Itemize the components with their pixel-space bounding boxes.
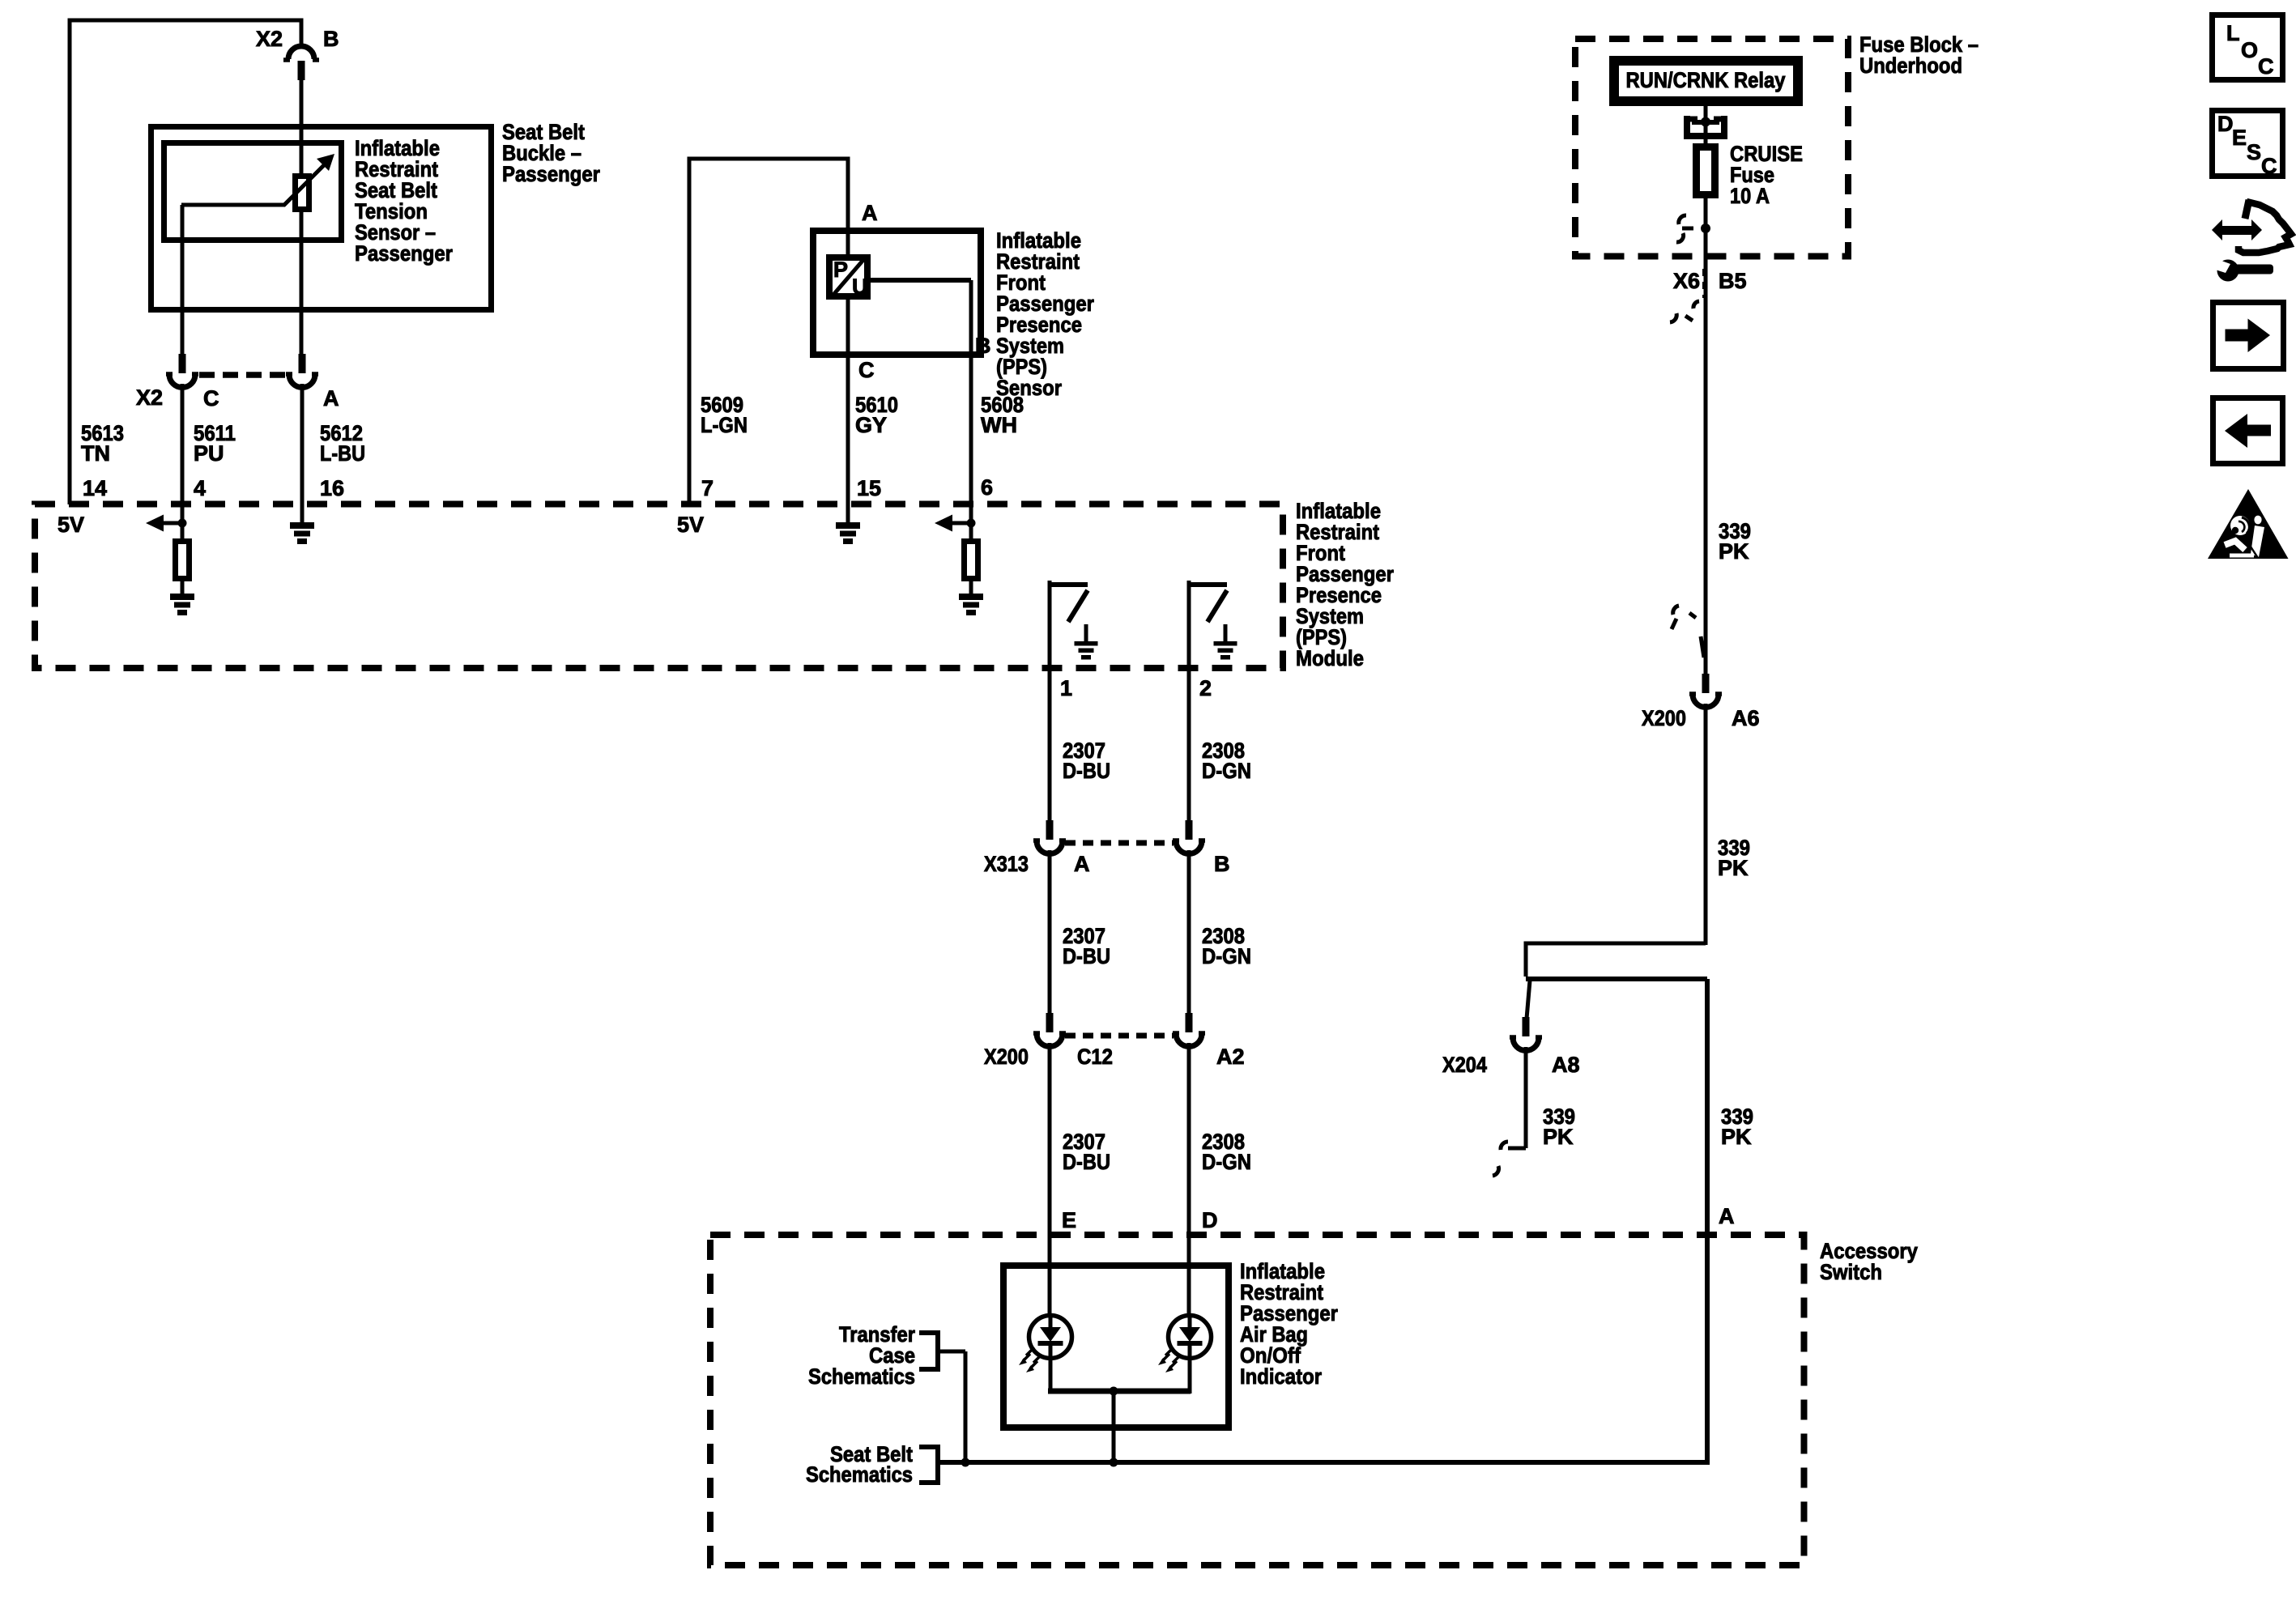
svg-text:15: 15 xyxy=(857,476,881,500)
svg-text:A6: A6 xyxy=(1732,706,1760,730)
svg-text:Underhood: Underhood xyxy=(1859,53,1962,78)
svg-text:X204: X204 xyxy=(1442,1053,1487,1077)
svg-text:D-GN: D-GN xyxy=(1202,944,1251,968)
svg-text:PK: PK xyxy=(1718,856,1749,880)
svg-text:C: C xyxy=(2261,154,2277,178)
svg-text:O: O xyxy=(2241,38,2258,62)
svg-text:D-BU: D-BU xyxy=(1063,1150,1110,1174)
svg-text:D: D xyxy=(2217,112,2234,136)
svg-text:1: 1 xyxy=(1060,676,1072,700)
svg-text:X200: X200 xyxy=(1642,706,1686,730)
svg-text:Schematics: Schematics xyxy=(806,1462,913,1487)
svg-text:5V: 5V xyxy=(677,513,704,537)
svg-text:PU: PU xyxy=(194,441,224,466)
svg-text:2: 2 xyxy=(1199,676,1212,700)
svg-text:GY: GY xyxy=(855,413,887,437)
svg-text:U: U xyxy=(852,274,868,299)
svg-text:B: B xyxy=(975,334,991,358)
svg-text:X200: X200 xyxy=(984,1045,1029,1069)
svg-text:D-BU: D-BU xyxy=(1063,944,1110,968)
svg-text:10 A: 10 A xyxy=(1730,184,1770,208)
svg-text:B: B xyxy=(1214,852,1230,876)
svg-text:E: E xyxy=(1062,1208,1076,1232)
svg-text:C: C xyxy=(2258,54,2274,79)
svg-text:L-GN: L-GN xyxy=(701,413,748,437)
svg-text:Switch: Switch xyxy=(1820,1260,1882,1284)
svg-text:Schematics: Schematics xyxy=(808,1364,915,1389)
svg-text:P: P xyxy=(833,257,848,282)
svg-text:7: 7 xyxy=(701,476,714,500)
svg-text:A: A xyxy=(862,201,878,225)
svg-text:C: C xyxy=(203,386,219,411)
svg-text:X2: X2 xyxy=(136,385,163,410)
svg-text:4: 4 xyxy=(194,476,206,500)
svg-text:X313: X313 xyxy=(984,852,1029,876)
svg-text:5V: 5V xyxy=(58,513,84,537)
svg-text:B: B xyxy=(323,27,339,51)
svg-text:A: A xyxy=(323,386,339,411)
svg-text:X6: X6 xyxy=(1673,269,1700,293)
svg-text:RUN/CRNK Relay: RUN/CRNK Relay xyxy=(1626,68,1786,92)
svg-text:C: C xyxy=(858,358,875,382)
svg-text:D-GN: D-GN xyxy=(1202,759,1251,783)
svg-text:A2: A2 xyxy=(1216,1045,1245,1069)
svg-text:D: D xyxy=(1202,1208,1218,1232)
svg-text:PK: PK xyxy=(1721,1125,1752,1149)
svg-text:A8: A8 xyxy=(1552,1053,1580,1077)
svg-text:C12: C12 xyxy=(1077,1045,1113,1069)
svg-text:E: E xyxy=(2232,126,2247,150)
svg-text:TN: TN xyxy=(81,441,110,466)
svg-text:16: 16 xyxy=(320,476,344,500)
svg-text:D-GN: D-GN xyxy=(1202,1150,1251,1174)
svg-text:Module: Module xyxy=(1296,646,1364,670)
svg-text:A: A xyxy=(1074,852,1090,876)
svg-text:X2: X2 xyxy=(256,27,283,51)
svg-text:PK: PK xyxy=(1719,539,1749,564)
svg-text:S: S xyxy=(2247,140,2261,164)
svg-text:L-BU: L-BU xyxy=(320,441,365,466)
svg-text:Passenger: Passenger xyxy=(355,241,453,266)
svg-text:A: A xyxy=(1719,1204,1735,1228)
svg-text:6: 6 xyxy=(981,475,993,500)
svg-text:L: L xyxy=(2226,21,2240,45)
svg-text:B5: B5 xyxy=(1719,269,1747,293)
svg-text:D-BU: D-BU xyxy=(1063,759,1110,783)
svg-text:WH: WH xyxy=(981,413,1017,437)
svg-text:PK: PK xyxy=(1543,1125,1574,1149)
svg-text:Indicator: Indicator xyxy=(1240,1364,1322,1389)
svg-text:14: 14 xyxy=(83,476,107,500)
svg-text:Passenger: Passenger xyxy=(502,162,600,186)
